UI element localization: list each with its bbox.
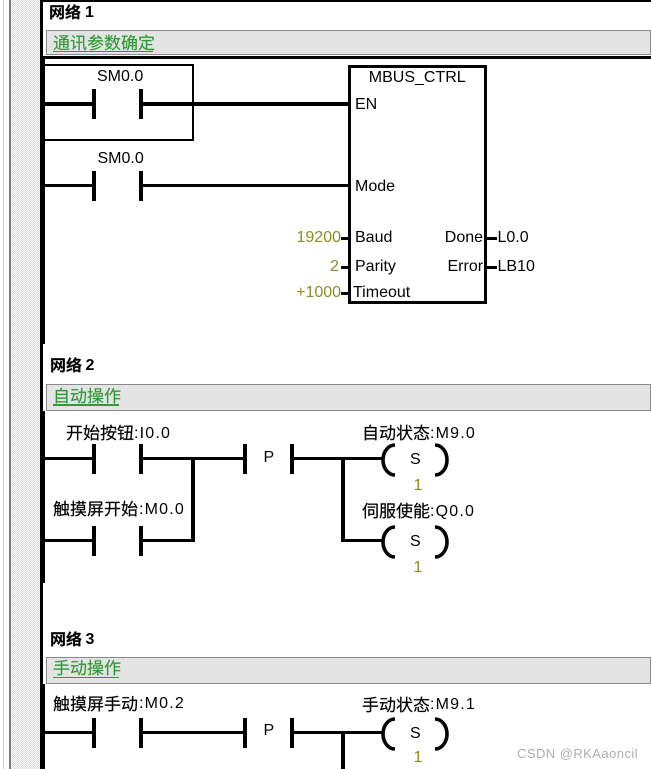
value +1000 for Timeout	[296, 284, 341, 301]
svg-text:S: S	[410, 533, 421, 550]
network 1 top separator line	[43, 56, 651, 59]
selection box around contact 1	[41, 64, 194, 142]
network 2 left power rail	[42, 411, 45, 584]
set coil S 伺服使能 Q0.0	[379, 523, 449, 561]
wire contact to Mode	[143, 184, 350, 188]
coil Q0.0 label	[362, 499, 436, 521]
wire contact to EN	[143, 102, 350, 106]
tick Baud	[341, 237, 349, 240]
pin Baud	[355, 229, 392, 246]
editor left border	[40, 0, 43, 769]
output operand LB10	[498, 258, 535, 275]
contact 开始按钮 I0.0	[92, 444, 96, 474]
tick Parity	[341, 266, 349, 269]
set coil S 自动状态 M9.0	[379, 441, 449, 479]
coil M9.1 label	[362, 693, 436, 715]
tick Error	[487, 266, 497, 269]
contact SM0.0 rung 1 label	[97, 68, 143, 85]
wire rail to contact I0.0	[45, 457, 92, 461]
contact M0.2 label	[53, 692, 144, 714]
tick Done	[487, 237, 497, 240]
branch vertical network 3	[341, 731, 345, 769]
contact SM0.0 rung 2 label	[98, 150, 144, 167]
coil M9.0 count 1	[414, 477, 423, 494]
branch vertical to coil Q0.0	[341, 457, 345, 543]
coil M9.1 count 1	[414, 749, 423, 766]
network 1 title	[49, 0, 87, 22]
left pane divider line	[3, 0, 5, 769]
function block MBUS_CTRL	[348, 65, 487, 304]
wire rail to contact M0.0	[45, 539, 92, 543]
wire rail to contact rung 2	[45, 184, 92, 188]
network 1 comment text	[53, 31, 161, 53]
contact SM0.0 rung 1	[92, 89, 96, 119]
contact 触摸屏手动 M0.2	[92, 718, 96, 748]
pin Parity	[355, 258, 396, 275]
value 2 for Parity	[330, 258, 339, 275]
network 2 comment bar	[46, 384, 651, 411]
dithered gutter strip	[11, 0, 41, 769]
coil M9.0 label	[362, 421, 436, 443]
junction vertical OR branch	[191, 457, 195, 543]
P label network 3	[264, 722, 275, 739]
contact I0.0 label	[66, 421, 140, 443]
wire contact M0.0 to junction	[143, 539, 195, 543]
value 19200 for Baud	[297, 229, 342, 246]
output operand L0.0	[498, 229, 529, 246]
comment underline	[53, 404, 119, 406]
network 1 left power rail	[42, 59, 45, 345]
pin Mode	[355, 178, 395, 195]
pin EN	[355, 96, 377, 113]
wire P to coil M9.1	[293, 731, 382, 735]
watermark	[517, 745, 638, 762]
network 2 comment text	[53, 384, 127, 406]
positive edge contact P network 2	[243, 444, 247, 474]
coil Q0.0 count 1	[414, 559, 423, 576]
contact 触摸屏开始 M0.0	[92, 526, 96, 556]
tick Timeout	[341, 292, 349, 295]
P label	[264, 449, 275, 466]
pin Done	[445, 229, 483, 246]
set coil S 手动状态 M9.1	[379, 715, 449, 753]
pin Error	[448, 258, 484, 275]
network 1 comment bar	[46, 30, 651, 55]
contact M0.0 label	[53, 497, 144, 519]
network 3 comment bar	[46, 657, 651, 684]
comment underline	[53, 677, 119, 679]
svg-text:S: S	[410, 451, 421, 468]
network 3 title	[50, 627, 88, 649]
comment underline	[53, 51, 153, 53]
contact SM0.0 rung 2	[92, 171, 96, 201]
network 3 left power rail	[42, 684, 45, 769]
svg-text:S: S	[410, 725, 421, 742]
wire P to coil S M9.0	[293, 457, 382, 461]
positive edge contact P network 3	[243, 718, 247, 748]
wire contact I0.0 to P	[143, 457, 244, 461]
network 3 comment text	[53, 656, 127, 678]
wire rail to contact rung 1	[45, 102, 92, 106]
wire branch to coil Q0.0	[341, 539, 382, 543]
pin Timeout	[353, 284, 410, 301]
editor top border	[40, 0, 651, 2]
block title	[369, 69, 466, 86]
wire contact M0.2 to P	[143, 731, 244, 735]
wire rail to contact M0.2	[45, 731, 92, 735]
gutter left border	[9, 0, 11, 769]
network 2 title	[50, 353, 88, 375]
